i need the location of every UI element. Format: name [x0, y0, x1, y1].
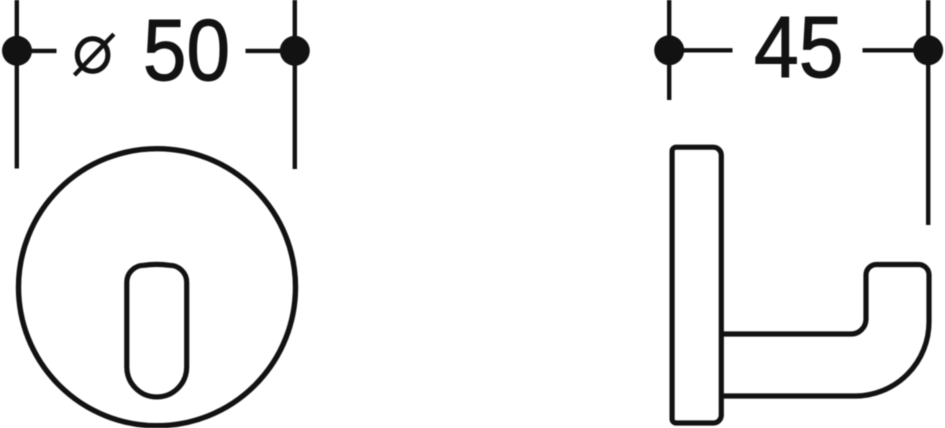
extension line left (side view, 45 left) — [667, 0, 671, 100]
front view: rosette circle Ø50 — [19, 149, 296, 426]
side view: hook arm outline — [721, 265, 929, 397]
dimension line segment left (45) — [669, 48, 732, 52]
extension line right (side view, 45 right) — [926, 0, 930, 225]
svg-text:45: 45 — [754, 0, 844, 96]
dimension terminator dot left (45) — [654, 35, 684, 65]
dimension line segment left (Ø50) — [17, 49, 57, 53]
svg-text:50: 50 — [143, 1, 230, 99]
dimension terminator dot right (Ø50) — [280, 36, 310, 66]
dimension terminator dot left (Ø50) — [2, 36, 32, 66]
front view: hook slot cutout (obround) — [127, 264, 187, 397]
extension line left (front view, Ø50 left) — [15, 0, 19, 169]
side view: wall plate — [672, 147, 721, 423]
extension line right (front view, Ø50 right) — [293, 0, 297, 169]
diameter symbol ø of label Ø50 — [74, 34, 114, 75]
dimension terminator dot right (45) — [913, 35, 943, 65]
dimension line segment right (45) — [863, 48, 929, 52]
dimension line segment right (Ø50) — [246, 49, 295, 53]
